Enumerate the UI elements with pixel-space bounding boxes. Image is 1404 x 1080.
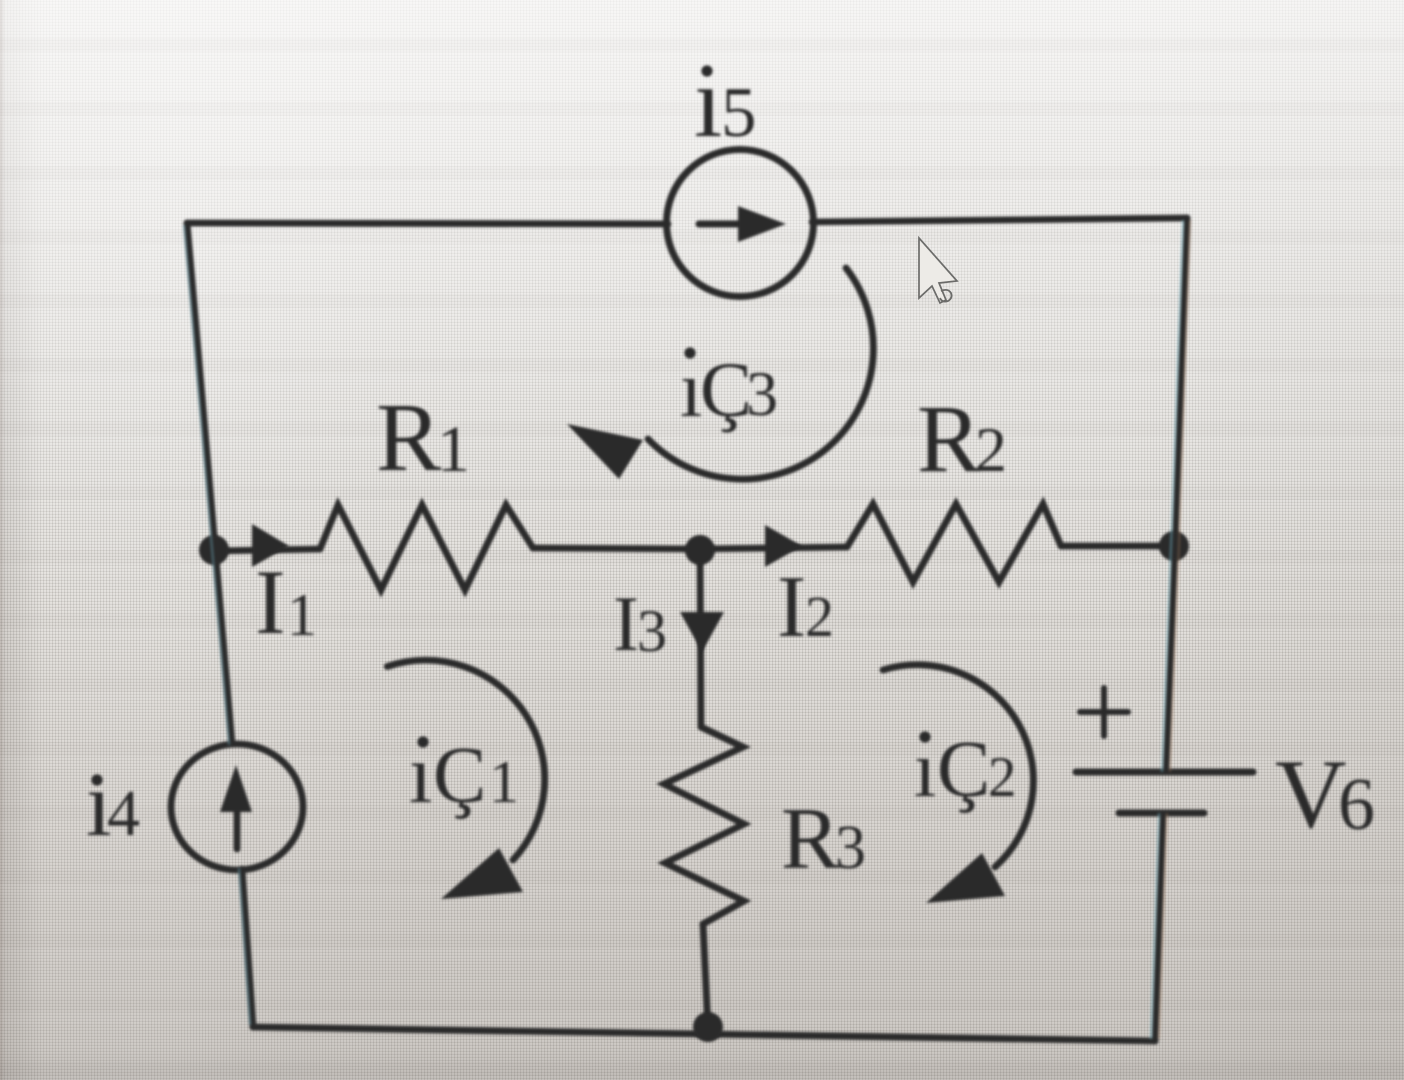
svg-text:Ç: Ç [433, 732, 486, 820]
svg-text:2: 2 [805, 584, 834, 649]
svg-text:R: R [781, 791, 840, 888]
svg-text:3: 3 [637, 598, 667, 664]
svg-text:R: R [376, 384, 442, 492]
svg-text:3: 3 [746, 358, 778, 429]
svg-text:I: I [777, 559, 806, 656]
svg-text:5: 5 [721, 74, 757, 152]
svg-text:ı: ı [694, 46, 722, 159]
svg-text:Ç: Ç [937, 726, 990, 814]
svg-text:V: V [1275, 740, 1347, 849]
svg-text:3: 3 [835, 814, 866, 882]
svg-text:1: 1 [287, 582, 317, 648]
svg-text:2: 2 [988, 746, 1017, 809]
svg-text:6: 6 [1338, 764, 1375, 846]
svg-text:I: I [255, 551, 286, 653]
svg-text:I: I [613, 580, 639, 667]
svg-text:1: 1 [489, 749, 519, 815]
svg-text:Ç: Ç [700, 346, 752, 433]
svg-text:2: 2 [975, 414, 1007, 485]
svg-text:ı: ı [680, 346, 702, 434]
svg-text:4: 4 [107, 777, 140, 850]
svg-text:R: R [917, 385, 981, 492]
svg-text:1: 1 [437, 413, 470, 486]
